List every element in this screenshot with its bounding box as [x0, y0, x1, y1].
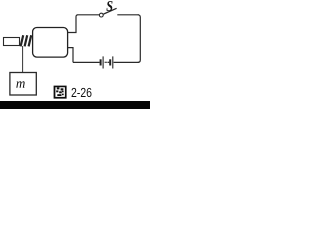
- wire top right: [117, 14, 139, 16]
- battery GB: [101, 56, 113, 68]
- string: [22, 46, 24, 73]
- mass box: [10, 73, 36, 96]
- label m: [16, 81, 24, 88]
- wire bottom lead: [68, 48, 73, 63]
- caption number 2-26: [72, 88, 92, 97]
- wire top lead: [68, 15, 78, 33]
- caption glyph tu (figure): [54, 86, 67, 99]
- label S: [106, 1, 112, 11]
- wire bottom right: [114, 61, 139, 63]
- rod (iron core): [4, 38, 20, 46]
- switch S pivot: [99, 13, 103, 17]
- coil winding: [21, 35, 32, 46]
- electromagnet body: [33, 28, 68, 58]
- switch S blade: [103, 8, 116, 14]
- wire right: [138, 15, 141, 63]
- wire top: [78, 14, 100, 16]
- wire bottom left: [73, 61, 100, 63]
- bottom black bar: [0, 101, 150, 109]
